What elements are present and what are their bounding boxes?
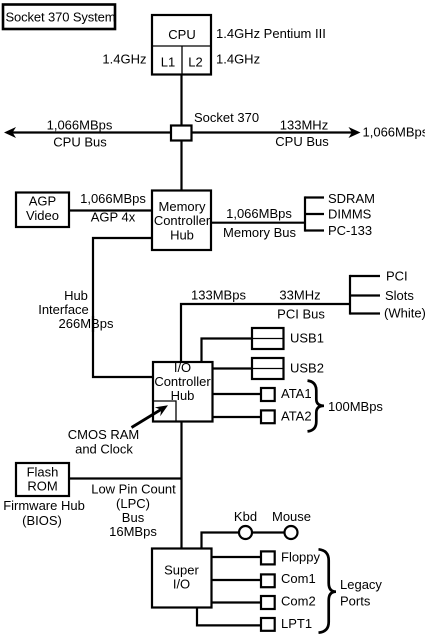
box Com1	[261, 574, 275, 587]
wire USB2 internal divider	[252, 368, 284, 370]
svg-text:Low Pin Count: Low Pin Count	[91, 482, 176, 497]
wire Hub Interface MCH to ICH	[93, 238, 154, 377]
wire White stub	[350, 312, 380, 314]
svg-text:SDRAM: SDRAM	[328, 191, 375, 206]
svg-text:(White): (White)	[384, 306, 425, 321]
svg-text:1,066MBps: 1,066MBps	[47, 118, 113, 133]
brace 100MBps	[308, 381, 325, 432]
box Socket 370	[171, 126, 192, 141]
box I/O Controller Hub	[153, 362, 213, 422]
svg-text:Legacy: Legacy	[340, 577, 382, 592]
box ATA1	[261, 388, 275, 401]
wire CPU bus horizontal	[10, 131, 354, 133]
svg-text:USB2: USB2	[290, 361, 324, 376]
svg-text:(BIOS): (BIOS)	[22, 513, 62, 528]
svg-text:Firmware Hub: Firmware Hub	[3, 498, 85, 513]
svg-text:Socket 370: Socket 370	[194, 110, 259, 125]
svg-text:Hub: Hub	[64, 288, 88, 303]
svg-text:DIMMS: DIMMS	[328, 207, 372, 222]
box USB2	[252, 358, 284, 379]
svg-text:AGP 4x: AGP 4x	[91, 210, 136, 225]
svg-text:PCI Bus: PCI Bus	[277, 307, 325, 322]
svg-text:ROM: ROM	[27, 479, 57, 494]
wire ICH to ATA1	[212, 393, 261, 395]
wire Kbd to Mouse	[252, 531, 285, 533]
box Memory Controller Hub	[152, 191, 211, 251]
svg-text:Kbd: Kbd	[234, 509, 257, 524]
box LPT1	[261, 618, 275, 631]
node Mouse connector	[285, 526, 298, 539]
box AGP Video	[16, 193, 69, 228]
svg-text:Com1: Com1	[281, 571, 316, 586]
svg-text:1,066MBps: 1,066MBps	[226, 206, 292, 221]
wire AGP Video to MCH	[68, 209, 153, 211]
svg-text:Socket 370 System: Socket 370 System	[6, 10, 116, 25]
box CMOS RAM square inside ICH	[153, 401, 176, 421]
svg-text:1.4GHz Pentium III: 1.4GHz Pentium III	[216, 26, 326, 41]
wire Super I/O to Kbd	[202, 533, 240, 550]
brace Legacy Ports	[319, 549, 337, 632]
svg-text:1,066MBps: 1,066MBps	[80, 191, 146, 206]
wire DIMMS stub	[305, 213, 324, 215]
svg-text:133MBps: 133MBps	[191, 288, 246, 303]
svg-text:CMOS RAM: CMOS RAM	[68, 427, 140, 442]
arrowhead left CPU bus	[4, 127, 16, 138]
arrow to CMOS RAM	[132, 410, 162, 428]
svg-text:L2: L2	[188, 55, 202, 70]
svg-text:CPU Bus: CPU Bus	[53, 135, 107, 150]
wire Hub Interface overlay crossing 266MBps label	[92, 316, 94, 332]
wire ICH to USB1	[202, 339, 253, 363]
svg-text:L1: L1	[161, 55, 175, 70]
wire Super I/O to Com2	[211, 601, 261, 603]
svg-text:Super: Super	[164, 563, 199, 578]
wire SDRAM stub	[305, 196, 324, 198]
svg-text:266MBps: 266MBps	[59, 316, 114, 331]
box CPU	[152, 15, 211, 75]
svg-text:Bus: Bus	[122, 510, 145, 525]
svg-text:Floppy: Floppy	[281, 550, 321, 565]
wire ICH to ATA2	[212, 416, 261, 418]
box Com2	[261, 596, 275, 609]
box Flash ROM	[16, 463, 69, 496]
box Floppy	[261, 551, 275, 564]
wire CPU internal divider horizontal	[152, 45, 211, 47]
wire PC-133 stub	[305, 229, 324, 231]
svg-text:USB1: USB1	[290, 331, 324, 346]
wire Flash ROM to LPC bus	[68, 477, 182, 479]
svg-text:ATA1: ATA1	[281, 386, 312, 401]
svg-text:1.4GHz: 1.4GHz	[102, 52, 146, 67]
wire Super I/O to LPT1	[197, 607, 261, 625]
svg-text:Controller: Controller	[154, 213, 211, 228]
wire Slots stub	[350, 294, 380, 296]
wire USB1 internal divider	[252, 338, 284, 340]
svg-text:16MBps: 16MBps	[109, 524, 157, 539]
node memory bracket vertical	[304, 196, 306, 231]
svg-text:ATA2: ATA2	[281, 409, 312, 424]
wire PCI Bus	[181, 304, 350, 362]
svg-text:Interface: Interface	[38, 302, 89, 317]
wire CPU to Socket 370	[180, 74, 182, 126]
svg-text:PC-133: PC-133	[328, 223, 372, 238]
wire Super I/O to Com1	[211, 579, 261, 581]
svg-text:1,066MBps: 1,066MBps	[363, 125, 425, 140]
arrowhead right CPU bus	[349, 127, 361, 138]
svg-text:Hub: Hub	[170, 228, 194, 243]
svg-text:CPU: CPU	[168, 27, 195, 42]
svg-text:Mouse: Mouse	[272, 509, 311, 524]
box USB1	[252, 328, 284, 349]
svg-text:Video: Video	[26, 208, 59, 223]
svg-text:33MHz: 33MHz	[279, 288, 320, 303]
svg-text:Ports: Ports	[340, 594, 371, 609]
box Socket 370 System title	[3, 5, 115, 30]
svg-text:I/O: I/O	[174, 360, 191, 375]
wire Memory Bus	[210, 222, 305, 224]
svg-text:I/O: I/O	[173, 577, 190, 592]
wire Super I/O to Floppy	[211, 556, 261, 558]
svg-text:1.4GHz: 1.4GHz	[216, 52, 260, 67]
box ATA2	[261, 410, 275, 423]
svg-text:Hub: Hub	[171, 388, 195, 403]
svg-text:Controller: Controller	[154, 374, 211, 389]
svg-text:133MHz: 133MHz	[280, 118, 328, 133]
svg-text:CPU Bus: CPU Bus	[275, 134, 329, 149]
wire PCI stub	[350, 275, 380, 277]
node Kbd connector	[239, 526, 252, 539]
svg-text:100MBps: 100MBps	[328, 399, 383, 414]
svg-text:Memory: Memory	[159, 199, 206, 214]
wire CPU internal divider vertical	[181, 46, 183, 74]
svg-text:Memory Bus: Memory Bus	[223, 225, 296, 240]
svg-text:PCI: PCI	[386, 269, 408, 284]
wire Socket 370 to Memory Controller Hub	[180, 140, 182, 191]
wire ICH to USB2	[212, 367, 252, 369]
svg-text:LPT1: LPT1	[281, 616, 312, 631]
svg-text:(LPC): (LPC)	[116, 496, 150, 511]
svg-text:Slots: Slots	[385, 288, 414, 303]
svg-text:Flash: Flash	[27, 465, 59, 480]
svg-text:and Clock: and Clock	[75, 442, 133, 457]
wire LPC bus ICH to Super I/O	[180, 421, 182, 549]
svg-text:Com2: Com2	[281, 594, 316, 609]
svg-text:AGP: AGP	[29, 194, 56, 209]
box Super I/O	[152, 549, 212, 608]
node PCI bracket vertical	[349, 275, 351, 315]
